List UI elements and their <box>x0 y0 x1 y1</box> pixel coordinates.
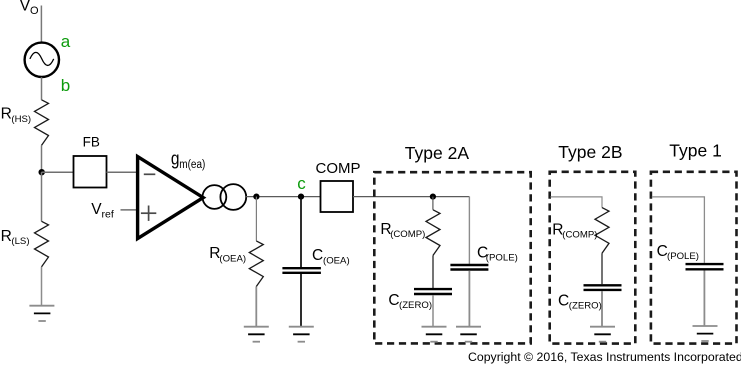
resistor ROEA <box>249 241 263 287</box>
wire VO to source <box>40 6 42 43</box>
wire ROEA to ground <box>255 287 257 327</box>
Vref label <box>91 201 114 221</box>
wire node down to RLS <box>41 172 43 221</box>
svg-text:g: g <box>171 148 180 168</box>
svg-text:O: O <box>30 5 39 17</box>
svg-text:Type 2B: Type 2B <box>558 142 622 162</box>
svg-text:c: c <box>297 174 306 193</box>
wire CZERO 2B to ground <box>601 291 603 326</box>
resistor ROEA label <box>209 245 246 264</box>
capacitor CPOLE 2A <box>450 265 488 270</box>
Type 1 dashed box <box>651 172 737 344</box>
current source circle 1 <box>203 185 227 209</box>
wire Type 2B input <box>551 197 603 208</box>
svg-text:Type 1: Type 1 <box>669 140 722 160</box>
svg-text:R: R <box>1 228 12 245</box>
ground below RLS <box>29 306 54 321</box>
capacitor COEA label <box>312 247 350 266</box>
ground below CPOLE 2A <box>456 327 481 342</box>
svg-text:R: R <box>1 105 12 122</box>
wire RHS to node <box>41 145 43 172</box>
wire CZERO 2A to ground <box>432 295 434 326</box>
resistor RCOMP 2A <box>426 210 440 256</box>
capacitor CZERO 2B <box>584 285 622 290</box>
wire CPOLE 2A to ground <box>468 271 470 327</box>
capacitor CPOLE Type 1 label <box>657 243 699 262</box>
capacitor CZERO 2B label <box>558 292 602 311</box>
wire Type 1 input <box>652 197 705 263</box>
resistor RHS label <box>1 105 32 124</box>
svg-text:Copyright © 2016, Texas Instru: Copyright © 2016, Texas Instruments Inco… <box>468 350 741 364</box>
FB box <box>74 156 107 188</box>
junction node c <box>298 194 304 200</box>
svg-text:(ZERO): (ZERO) <box>399 300 432 311</box>
svg-text:b: b <box>61 76 70 95</box>
junction node ROEA tap <box>253 194 259 200</box>
svg-text:a: a <box>61 32 71 51</box>
svg-text:(HS): (HS) <box>11 114 31 125</box>
svg-text:m(ea): m(ea) <box>179 159 205 171</box>
resistor RCOMP 2B label <box>552 221 597 240</box>
capacitor CZERO 2A <box>414 289 452 294</box>
resistor RCOMP 2A label <box>380 221 425 240</box>
wire node to FB box <box>42 171 74 173</box>
wire COMP to Type 2A network <box>353 196 469 198</box>
wire RCOMP 2B to CZERO 2B <box>601 253 603 284</box>
svg-text:(LS): (LS) <box>11 236 29 247</box>
svg-text:Type 2A: Type 2A <box>405 143 470 163</box>
svg-text:(COMP): (COMP) <box>562 229 597 240</box>
svg-text:C: C <box>388 292 399 309</box>
wire Vref to op-amp non-inverting input <box>121 209 138 211</box>
svg-text:(POLE): (POLE) <box>667 251 699 262</box>
svg-text:(OEA): (OEA) <box>219 254 246 265</box>
capacitor COEA <box>282 268 321 273</box>
ground below CPOLE Type 1 <box>693 326 718 341</box>
wire source to RHS <box>41 77 43 100</box>
wire down to CPOLE 2A <box>468 197 470 264</box>
gm(ea) label <box>171 148 206 171</box>
Type 2A dashed box <box>374 172 530 343</box>
wire down to RCOMP <box>432 197 434 210</box>
svg-text:FB: FB <box>83 135 100 150</box>
wire node c down to COEA <box>300 197 302 268</box>
svg-text:(ZERO): (ZERO) <box>569 300 602 311</box>
ground below CZERO 2B <box>590 327 615 342</box>
op-amp plus sign <box>141 206 156 221</box>
wire down to ROEA <box>255 197 257 241</box>
ac source V1 <box>25 43 59 77</box>
capacitor CZERO 2A label <box>388 292 432 311</box>
ground below CZERO 2A <box>422 327 447 342</box>
svg-text:COMP: COMP <box>316 160 361 177</box>
svg-text:C: C <box>312 247 323 264</box>
junction node RCOMP tap <box>430 194 436 200</box>
capacitor CPOLE Type 1 <box>686 264 724 269</box>
junction node FB tap <box>39 169 45 175</box>
Type 2B dashed box <box>550 172 636 344</box>
wire CPOLE Type 1 to ground <box>703 271 705 327</box>
current source circle 2 <box>220 184 246 210</box>
resistor RCOMP 2B <box>595 208 609 254</box>
wire RCOMP to CZERO <box>432 255 434 288</box>
wire RLS to ground <box>41 267 43 306</box>
svg-text:(POLE): (POLE) <box>486 253 518 264</box>
op-amp minus sign <box>144 173 156 175</box>
wire gm output to COMP <box>246 196 321 198</box>
svg-text:(COMP): (COMP) <box>390 229 425 240</box>
capacitor CPOLE 2A label <box>477 244 518 263</box>
svg-text:C: C <box>558 292 569 309</box>
ground below ROEA <box>244 327 269 342</box>
op-amp gm(ea) <box>138 157 204 239</box>
COMP box <box>321 181 354 212</box>
wire FB to op-amp inverting input <box>107 171 138 173</box>
resistor RLS <box>35 221 49 267</box>
svg-text:(OEA): (OEA) <box>323 256 350 267</box>
svg-text:ref: ref <box>102 208 114 220</box>
ground below COEA <box>289 327 314 342</box>
resistor RHS <box>35 100 49 146</box>
resistor RLS label <box>1 228 30 247</box>
wire COEA to ground <box>300 274 302 327</box>
